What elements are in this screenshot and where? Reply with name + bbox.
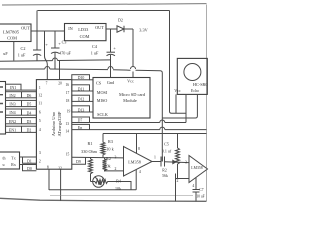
svg-text:Module: Module — [123, 98, 137, 103]
svg-text:D4: D4 — [27, 111, 32, 115]
svg-text:R3: R3 — [108, 139, 113, 144]
svg-text:C4: C4 — [92, 44, 98, 49]
wire hop over C3 — [52, 58, 57, 61]
svg-text:COM: COM — [80, 34, 90, 39]
svg-text:IN: IN — [68, 26, 73, 31]
svg-text:COM: COM — [7, 36, 17, 41]
wire hop at pin7 wire — [45, 67, 50, 70]
svg-text:3: 3 — [115, 156, 117, 160]
svg-text:470 uF: 470 uF — [59, 51, 71, 56]
wire Vcc stub — [175, 94, 177, 113]
HC-SR04 module box — [177, 58, 207, 94]
wire Echo down and left — [162, 94, 197, 118]
wire hop at C4 wire — [108, 67, 113, 70]
svg-text:OUT: OUT — [21, 26, 30, 31]
regulator U3 LD33 — [65, 24, 107, 41]
svg-text:C3: C3 — [62, 40, 67, 45]
svg-text:2: 2 — [39, 159, 41, 163]
svg-text:+: + — [45, 42, 48, 47]
svg-text:0.1 uf: 0.1 uf — [162, 149, 172, 154]
svg-text:3: 3 — [39, 151, 41, 155]
svg-text:1 uF: 1 uF — [18, 53, 26, 58]
svg-text:Tx: Tx — [11, 156, 15, 161]
wire op-amp output — [152, 161, 161, 163]
svg-text:8: 8 — [138, 147, 140, 151]
regulator U2 LM7805 — [0, 24, 31, 42]
wire riser to 5V top rail — [36, 11, 38, 32]
svg-text:EN2: EN2 — [9, 119, 16, 124]
svg-text:IN2: IN2 — [9, 93, 15, 98]
wire op-amp supply pin8 — [136, 134, 138, 154]
relay input IN2, net D6 — [6, 92, 37, 98]
svg-text:IN4: IN4 — [9, 110, 15, 115]
svg-text:D13: D13 — [78, 108, 85, 112]
wire pin8 to ground rail — [48, 169, 50, 190]
svg-text:18: 18 — [66, 99, 70, 103]
wire pin22 down — [60, 169, 62, 201]
potentiometer R6 — [177, 134, 179, 147]
svg-text:2: 2 — [115, 167, 117, 171]
svg-text:D10: D10 — [78, 76, 85, 80]
svg-text:D11: D11 — [78, 87, 84, 91]
svg-text:1: 1 — [39, 86, 41, 90]
svg-text:13: 13 — [66, 122, 70, 126]
wire pin15 to op-amp pin3, net D9 — [72, 156, 124, 159]
wire Trig stub — [185, 94, 187, 122]
svg-text:7: 7 — [46, 82, 48, 86]
svg-text:SCLK: SCLK — [97, 112, 108, 117]
svg-text:D1: D1 — [27, 160, 32, 164]
border frame bottom — [0, 198, 207, 201]
svg-text:th: th — [2, 156, 5, 161]
svg-text:17: 17 — [66, 91, 70, 95]
wire ground line upper — [0, 60, 111, 61]
wire IN1 to pin1 — [21, 89, 36, 91]
wire supply line — [103, 133, 207, 135]
svg-text:D3: D3 — [27, 120, 32, 124]
border frame top — [2, 4, 207, 5]
svg-text:3.3V: 3.3V — [139, 27, 148, 32]
wire pin17 to MOSI, net D11 — [72, 85, 90, 91]
capacitor C5 0.1uF — [160, 157, 162, 167]
capacitor C7 10uF — [195, 177, 197, 189]
wire hop at 3.3V wire — [131, 67, 136, 70]
capacitor C2 — [36, 31, 38, 50]
wire junction — [161, 157, 163, 162]
svg-text:LM358: LM358 — [191, 166, 202, 170]
Micro SD card module box — [93, 78, 150, 119]
svg-text:1: 1 — [154, 156, 156, 160]
svg-text:56k: 56k — [162, 174, 168, 178]
svg-text:u: u — [3, 162, 5, 167]
op-amp U4B LM358 — [189, 156, 208, 183]
svg-text:uF: uF — [3, 51, 8, 56]
wire 5V top rail — [38, 10, 170, 12]
svg-text:20: 20 — [58, 82, 62, 86]
wire Tx to pin3, net D1 — [20, 156, 37, 158]
svg-text:10 k: 10 k — [106, 146, 114, 151]
wire op-amp pin4 to ground rail — [135, 170, 137, 190]
svg-text:LM358: LM358 — [128, 159, 141, 164]
svg-text:11: 11 — [38, 101, 42, 105]
wire ground rail lower — [49, 189, 136, 191]
border frame right — [206, 5, 208, 202]
svg-text:2: 2 — [177, 179, 179, 183]
svg-text:8: 8 — [47, 165, 49, 169]
svg-text:MOSI: MOSI — [97, 90, 108, 95]
svg-text:R2: R2 — [162, 168, 167, 172]
svg-text:D0: D0 — [27, 167, 32, 171]
relay input EN1, net D2 — [6, 126, 37, 132]
svg-text:R4: R4 — [116, 179, 121, 184]
svg-text:MISO: MISO — [97, 98, 107, 103]
svg-text:C5: C5 — [164, 141, 169, 146]
wire branch to pin7 — [45, 31, 48, 80]
wire faint lower rail — [50, 195, 193, 197]
svg-text:19: 19 — [67, 110, 71, 114]
svg-text:12: 12 — [38, 94, 42, 98]
svg-text:D5: D5 — [27, 103, 32, 107]
svg-text:LD33: LD33 — [78, 27, 88, 32]
svg-text:1 uF: 1 uF — [91, 50, 99, 55]
svg-text:OUT: OUT — [95, 25, 104, 30]
svg-text:En: En — [78, 126, 82, 130]
svg-text:Micro SD card: Micro SD card — [119, 92, 146, 97]
MCU U1 Arduino Uno box — [36, 80, 71, 170]
relay input IN1 — [6, 84, 22, 90]
svg-text:CS: CS — [96, 81, 102, 86]
wire 5V rail down right side — [170, 11, 187, 114]
svg-text:10k: 10k — [115, 186, 121, 191]
wire R2 to pin2 of op-amp — [105, 170, 124, 172]
relay module box — [0, 82, 6, 135]
wire pin19 to SCLK, net D13 — [72, 106, 90, 112]
op-amp U4A LM358 — [124, 147, 153, 177]
svg-text:+: + — [113, 46, 116, 51]
svg-text:15: 15 — [66, 152, 70, 156]
svg-text:4: 4 — [192, 184, 194, 188]
svg-text:D2: D2 — [27, 129, 32, 133]
svg-text:IN1: IN1 — [10, 85, 16, 90]
svg-text:Arduino Uno: Arduino Uno — [51, 111, 56, 136]
wire stub to pin20 — [59, 61, 61, 80]
wire Rx to pin2, net D0 — [20, 164, 37, 166]
svg-text:Rx: Rx — [11, 162, 16, 167]
svg-text:10 uF: 10 uF — [196, 194, 204, 198]
wire pin14, net En — [72, 129, 207, 131]
svg-text:D12: D12 — [78, 98, 85, 102]
svg-text:Vcc: Vcc — [174, 88, 181, 93]
svg-text:D2: D2 — [118, 18, 123, 23]
svg-text:Vcc: Vcc — [127, 78, 134, 83]
svg-text:EN1: EN1 — [9, 127, 16, 132]
wire 7805 OUT to LD33 IN — [31, 30, 65, 32]
svg-text:ATmega328P: ATmega328P — [57, 111, 62, 136]
svg-text:4: 4 — [39, 128, 41, 132]
svg-text:HC-SR0: HC-SR0 — [193, 82, 207, 87]
svg-text:330 Ohm: 330 Ohm — [81, 149, 97, 154]
capacitor C4 — [110, 29, 112, 52]
relay input IN3, net D5 — [6, 100, 37, 106]
wire pin16 to CS, net D10 — [72, 75, 90, 80]
svg-text:Echo: Echo — [191, 88, 199, 93]
svg-text:D7: D7 — [78, 119, 83, 123]
wire 5V rail horizontal — [0, 69, 162, 162]
wire 3.3V down to SD Vcc — [132, 29, 134, 78]
svg-text:C2: C2 — [21, 46, 26, 51]
relay input EN2, net D3 — [6, 118, 37, 124]
svg-text:14: 14 — [66, 130, 70, 134]
relay input IN4, net D4 — [6, 109, 37, 115]
svg-text:R1: R1 — [88, 141, 93, 146]
capacitor C3 — [54, 31, 56, 48]
svg-text:3: 3 — [185, 161, 187, 165]
svg-text:IN3: IN3 — [9, 102, 15, 107]
svg-text:5: 5 — [39, 119, 41, 123]
wire pin18 to MISO, net D12 — [72, 95, 90, 101]
svg-text:4: 4 — [139, 170, 141, 174]
diode D2 — [106, 28, 117, 30]
wire pin2 feedback — [176, 178, 190, 180]
svg-text:LM7805: LM7805 — [3, 30, 20, 35]
svg-text:Gnd: Gnd — [107, 80, 115, 85]
svg-text:6: 6 — [39, 110, 41, 114]
svg-text:D9: D9 — [76, 160, 81, 164]
capacitor C1 lead — [13, 42, 15, 61]
Bluetooth module box — [0, 152, 20, 169]
svg-text:16: 16 — [66, 83, 70, 87]
potentiometer R4 10k — [93, 176, 105, 188]
svg-text:C7: C7 — [199, 188, 203, 192]
wire pin13 Trig, net D7 — [72, 122, 186, 124]
svg-text:D6: D6 — [27, 94, 32, 98]
